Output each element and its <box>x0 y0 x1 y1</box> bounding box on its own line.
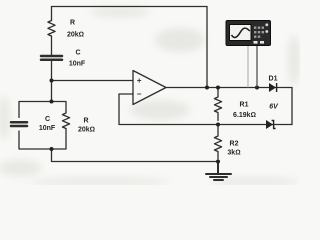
wire noninverting input <box>52 80 134 82</box>
svg-text:10nF: 10nF <box>39 125 56 132</box>
svg-text:R1: R1 <box>240 102 249 109</box>
op-amp minus sign <box>137 93 141 95</box>
svg-text:20kΩ: 20kΩ <box>67 32 84 39</box>
resistor R 20k (series) <box>48 19 55 37</box>
svg-text:10nF: 10nF <box>69 61 86 68</box>
svg-text:3kΩ: 3kΩ <box>227 150 240 157</box>
wire R to C <box>51 37 53 56</box>
junction scope lead <box>255 86 259 90</box>
wire bottom rail <box>52 149 219 162</box>
wire top rail <box>52 6 208 8</box>
wire limiter right edge <box>291 88 293 125</box>
svg-text:R: R <box>70 20 75 27</box>
svg-text:6V: 6V <box>269 104 279 111</box>
zener diode 6V <box>266 120 276 129</box>
capacitor C 10nF (parallel) <box>11 122 27 126</box>
svg-text:R: R <box>83 118 88 125</box>
junction R1 top <box>216 86 220 90</box>
resistor R2 <box>214 125 221 159</box>
wire left vertical upper lead <box>51 7 53 20</box>
op-amp plus sign <box>137 79 141 83</box>
junction R2 bottom <box>216 160 220 164</box>
wire inverting feedback <box>119 94 292 125</box>
junction output-top <box>205 86 209 90</box>
oscilloscope XSC1 <box>226 21 271 88</box>
resistor R 20k (parallel) <box>62 112 69 130</box>
junction box bottom <box>50 147 54 151</box>
diode D1 <box>269 83 277 92</box>
junction box top <box>50 100 54 104</box>
svg-text:D1: D1 <box>269 76 278 83</box>
resistor R1 <box>214 88 221 121</box>
capacitor C 10nF (series) <box>41 56 62 60</box>
svg-text:R2: R2 <box>230 141 239 148</box>
op-amp U1 <box>133 71 166 105</box>
svg-text:6.19kΩ: 6.19kΩ <box>233 112 256 119</box>
wire output <box>166 87 292 89</box>
wire C to node A <box>51 61 53 102</box>
wire parallel box <box>19 102 52 118</box>
svg-text:20kΩ: 20kΩ <box>78 127 95 134</box>
node A junction <box>50 79 54 83</box>
ground <box>206 162 231 181</box>
svg-text:C: C <box>75 50 80 57</box>
svg-text:C: C <box>45 116 50 123</box>
junction R1/R2 feedback <box>216 123 220 127</box>
wire top-right vertical <box>206 7 208 88</box>
